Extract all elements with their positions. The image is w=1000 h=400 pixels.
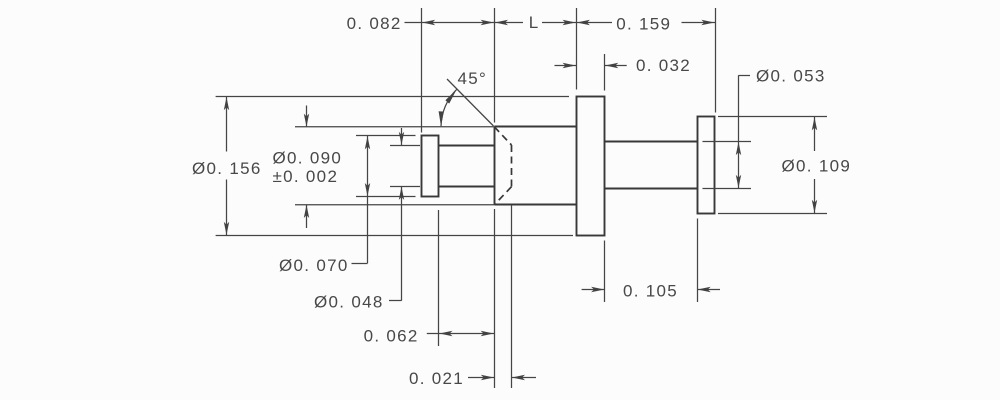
svg-text:0. 032: 0. 032 (636, 56, 691, 75)
dimension 0.105 (582, 219, 720, 303)
dimension 0.021 (468, 205, 536, 388)
dimension 45 degree chamfer angle (441, 79, 494, 126)
dimension 0.159 (576, 8, 715, 113)
part body: tail tube (439, 146, 495, 187)
dimension diameter 0.053 stem (703, 75, 752, 188)
dimension diameter 0.070 press ring (352, 136, 416, 264)
part body: funnel entry face (494, 127, 496, 205)
part body: press ring (422, 136, 439, 197)
dimension diameter 0.156 flange (216, 97, 573, 236)
svg-text:0. 159: 0. 159 (616, 15, 671, 34)
dimension 0.062 (427, 210, 495, 346)
svg-text:0. 062: 0. 062 (364, 327, 419, 346)
svg-text:45°: 45° (458, 69, 488, 88)
dimension diameter 0.109 end collar (718, 117, 827, 214)
part body: flange (577, 97, 605, 236)
svg-text:Ø0. 048: Ø0. 048 (314, 293, 384, 312)
svg-text:0. 082: 0. 082 (347, 14, 402, 33)
dimension diameter 0.048 tail tube (389, 128, 420, 301)
dimension L (494, 22, 576, 24)
dimension 0.082 (405, 8, 495, 133)
part body: stem (605, 142, 698, 189)
svg-text:0. 021: 0. 021 (409, 369, 464, 388)
svg-text:L: L (529, 13, 540, 32)
svg-text:Ø0. 156: Ø0. 156 (192, 159, 262, 178)
part body: end collar (698, 117, 715, 214)
svg-text:0. 105: 0. 105 (623, 282, 678, 301)
dimension 0.032 (555, 54, 627, 91)
svg-text:Ø0. 070: Ø0. 070 (279, 256, 349, 275)
svg-text:Ø0. 053: Ø0. 053 (756, 67, 826, 86)
hidden lines: internal entry chamfer (494, 127, 511, 205)
svg-text:Ø0. 090: Ø0. 090 (273, 148, 343, 167)
part body: barrel (494, 127, 576, 205)
dimension diameter 0.090 +-0.002 barrel (295, 106, 494, 229)
svg-text:Ø0. 109: Ø0. 109 (782, 157, 852, 176)
svg-text:±0. 002: ±0. 002 (273, 167, 339, 186)
